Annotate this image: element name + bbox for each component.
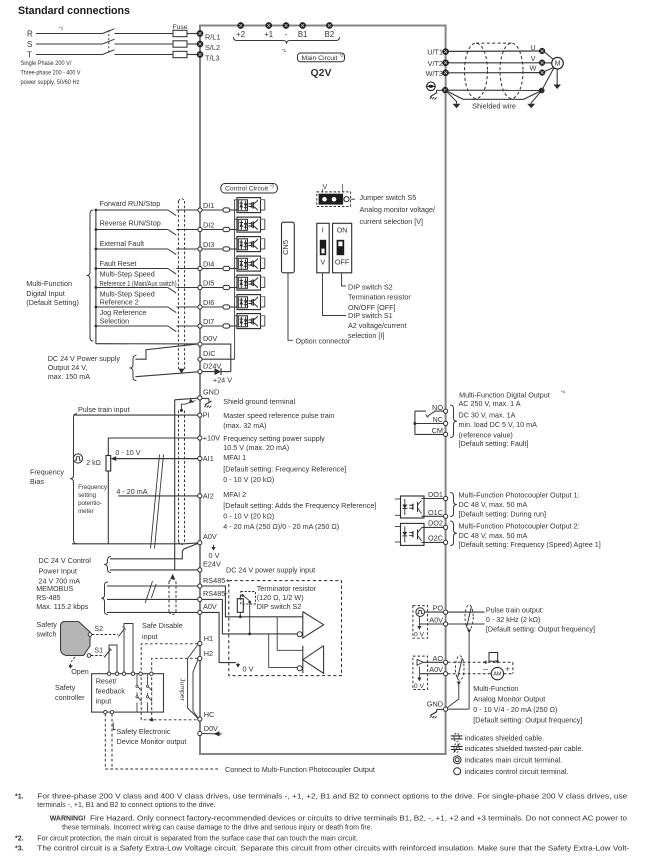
PO 0V arrow	[418, 616, 420, 626]
terminal A0V po	[444, 622, 448, 626]
svg-text:4 - 20 mA: 4 - 20 mA	[116, 487, 147, 496]
svg-text:[Default setting: Adds the Fre: [Default setting: Adds the Frequency Ref…	[223, 501, 376, 510]
rs485 driver U2	[303, 612, 324, 638]
photocoupler DO1 box	[401, 496, 425, 518]
optocoupler isolator for DI2	[237, 217, 261, 232]
wire resistor to optocoupler DI6	[230, 306, 237, 308]
svg-text:Frequency setting power supply: Frequency setting power supply	[223, 434, 325, 443]
terminal B2	[326, 22, 332, 28]
terminal S/L2	[197, 41, 203, 47]
svg-text:E24V: E24V	[203, 560, 221, 569]
svg-text:Three-phase 200 - 400 V: Three-phase 200 - 400 V	[21, 70, 82, 77]
relay output brace	[450, 405, 457, 438]
svg-text:Jumper switch S5: Jumper switch S5	[360, 193, 417, 202]
0 V arrow below A0V	[213, 545, 215, 548]
svg-text:DO2: DO2	[428, 519, 443, 528]
svg-text:U/T1: U/T1	[427, 48, 443, 57]
svg-text:DO1: DO1	[428, 490, 443, 499]
svg-text:*2.: *2.	[15, 836, 24, 843]
svg-text:*4: *4	[561, 390, 566, 395]
wire AI1 wiper arrow	[114, 458, 198, 460]
terminal R/L1	[197, 30, 203, 36]
terminal -	[283, 22, 289, 28]
svg-text:DC 24 V power supply input: DC 24 V power supply input	[226, 566, 315, 575]
opto right stub bottom DI6	[261, 306, 265, 308]
safety switch S3 body	[61, 622, 91, 656]
wire PO	[425, 611, 444, 613]
terminal A0V memobus	[198, 610, 202, 614]
wire resistor to optocoupler DI3	[230, 248, 237, 250]
opto right vertical DI6	[264, 297, 266, 307]
svg-text:[Default setting: Frequency (S: [Default setting: Frequency (Speed) Agre…	[459, 540, 601, 549]
svg-text:OFF: OFF	[335, 257, 350, 266]
svg-text:[Default setting: Fault]: [Default setting: Fault]	[459, 439, 529, 448]
optocoupler isolator for DI1	[237, 198, 261, 213]
terminal D24V	[198, 370, 202, 374]
reset feedback box	[92, 674, 164, 712]
rs485 driver bubble	[297, 632, 302, 637]
svg-text:(Default Setting): (Default Setting)	[26, 298, 79, 307]
wire AO	[423, 661, 443, 663]
svg-text:T: T	[27, 50, 32, 59]
legend control terminal icon	[454, 768, 461, 775]
svg-text:NC: NC	[432, 415, 443, 424]
relay CM wire	[415, 433, 444, 435]
svg-text:Multi-Function Photocoupler Ou: Multi-Function Photocoupler Output 2:	[459, 522, 580, 531]
wire rail to switch DI4	[96, 268, 168, 270]
wire DI7 to resistor	[202, 325, 223, 327]
svg-text:switch: switch	[37, 630, 57, 639]
svg-text:D24V: D24V	[203, 361, 221, 370]
optocoupler isolator for DI7	[237, 314, 261, 329]
svg-text:GND: GND	[427, 700, 443, 709]
opto right vertical DI2	[264, 219, 266, 229]
terminal DI2	[198, 227, 202, 231]
DO1 brace	[450, 493, 457, 517]
svg-text:these terminals. Incorrect wir: these terminals. Incorrect wiring can ca…	[62, 825, 373, 832]
wire A0V po	[420, 623, 444, 625]
terminal V/T2	[443, 60, 449, 66]
shield wire to motor node	[448, 89, 539, 91]
svg-text:AI2: AI2	[203, 492, 214, 501]
terminal +2	[238, 22, 244, 28]
svg-text:R: R	[27, 29, 33, 38]
shield ground symbol	[202, 398, 209, 401]
svg-text:Safety: Safety	[55, 683, 76, 692]
terminal RS485+	[198, 584, 202, 588]
analog 0V rail	[174, 400, 176, 570]
memobus shielded cable pair	[168, 582, 170, 613]
switch blade DI1	[168, 210, 176, 216]
terminal PO	[444, 610, 448, 614]
svg-text:O1C: O1C	[428, 508, 443, 517]
terminal PI	[198, 413, 202, 417]
frequency bias brace	[70, 414, 77, 544]
drive enclosure box	[200, 26, 446, 755]
Control Circuit label box	[221, 184, 278, 194]
motor M1	[552, 57, 564, 69]
svg-text:DI3: DI3	[203, 240, 214, 249]
svg-text:R/L1: R/L1	[205, 33, 220, 42]
svg-text:Fuse: Fuse	[172, 24, 187, 31]
svg-text:terminals -, +1, B1 and B2 to: terminals -, +1, B1 and B2 to connect op…	[37, 802, 215, 809]
svg-text:max. 150 mA: max. 150 mA	[48, 372, 91, 381]
svg-text:Pulse train input: Pulse train input	[78, 405, 130, 414]
H2 dashed line	[152, 658, 198, 720]
svg-text:HC: HC	[204, 710, 215, 719]
junction on DI rail DI7	[95, 325, 98, 328]
ground terminal symbol	[427, 82, 436, 91]
S1 loop wires	[109, 645, 117, 674]
svg-text:RS-485: RS-485	[36, 593, 60, 602]
Main Circuit label box	[298, 53, 345, 62]
svg-text:Power Input: Power Input	[39, 566, 77, 575]
svg-text:indicates control circuit term: indicates control circuit terminal.	[465, 767, 569, 776]
wire switch to terminal DI4	[176, 268, 200, 270]
terminal O1C	[444, 514, 448, 518]
terminal RS485-	[198, 597, 202, 601]
resistor on DI4 input	[223, 266, 230, 270]
terminal GND right	[444, 707, 448, 711]
ground terminal chassis symbol	[436, 90, 442, 93]
svg-text:Shield ground terminal: Shield ground terminal	[223, 397, 295, 406]
wire DO2	[422, 526, 444, 528]
svg-text:Bias: Bias	[30, 477, 44, 486]
terminal DO1	[444, 496, 448, 500]
svg-text:Single Phase 200 V/: Single Phase 200 V/	[21, 60, 72, 67]
wire A0V internal	[202, 612, 236, 662]
svg-text:0 - 10 V (20 kΩ): 0 - 10 V (20 kΩ)	[223, 512, 274, 521]
wire E24V	[110, 569, 198, 571]
wire rs485 plus tap	[277, 617, 303, 651]
svg-text:W: W	[530, 64, 537, 73]
svg-text:Safety: Safety	[37, 620, 58, 629]
svg-text:Multi-Function Photocoupler Ou: Multi-Function Photocoupler Output 1:	[459, 491, 580, 500]
svg-text:Fault Reset: Fault Reset	[100, 259, 137, 268]
wire A0V dashed external	[448, 673, 491, 675]
svg-text:O2C: O2C	[428, 534, 443, 543]
switch mechanical link	[108, 30, 110, 54]
shield wire node on edge	[442, 87, 448, 93]
terminal AI1	[198, 456, 202, 460]
shield ellipse right	[500, 43, 523, 98]
svg-text:min. load DC 5 V, 10 mA: min. load DC 5 V, 10 mA	[459, 420, 538, 429]
terminal A0V analog common	[198, 541, 202, 545]
svg-text:S1: S1	[94, 646, 103, 655]
EDM label leader	[113, 723, 115, 730]
svg-text:DIP switch S1: DIP switch S1	[348, 311, 393, 320]
svg-text:Reverse RUN/Stop: Reverse RUN/Stop	[100, 219, 161, 228]
wire rail to switch DI3	[96, 248, 168, 250]
svg-text:*1.: *1.	[15, 794, 24, 801]
svg-text:Standard connections: Standard connections	[18, 5, 130, 17]
opto right vertical DI4	[264, 258, 266, 268]
wire switch to terminal DI3	[176, 248, 200, 250]
terminal +1	[266, 22, 272, 28]
twisted pair marks analog	[151, 455, 160, 549]
input stub into opto DI4	[235, 257, 237, 259]
wire switch to terminal DI2	[176, 229, 200, 231]
relay NO wire	[415, 410, 426, 412]
switch blade S	[103, 39, 115, 44]
wire V	[449, 62, 539, 64]
svg-text:DIP switch S2: DIP switch S2	[348, 282, 393, 291]
wire DI2 to resistor	[202, 229, 223, 231]
svg-text:*3: *3	[270, 184, 275, 189]
motor frame ground stem	[556, 69, 558, 85]
legend main terminal icon	[453, 756, 461, 764]
opto right stub bottom DI4	[261, 268, 265, 270]
PO shield drain	[467, 630, 471, 634]
junction dot on EDM dashed	[150, 718, 153, 721]
wire T switch to fuse	[115, 54, 174, 56]
wire PI	[74, 414, 198, 416]
wire rail to switch DI2	[96, 229, 168, 231]
terminal DI6	[198, 305, 202, 309]
svg-text:DI6: DI6	[203, 298, 214, 307]
terminal T/L3	[197, 51, 203, 57]
motor shield node	[539, 88, 545, 94]
opto right stub top DI6	[261, 296, 265, 298]
svg-text:*3.: *3.	[15, 846, 24, 853]
terminal AO	[444, 660, 448, 664]
drain wire to analog shield	[181, 401, 195, 410]
svg-text:Shielded wire: Shielded wire	[472, 102, 516, 111]
opto right stub bottom DI5	[261, 287, 265, 289]
analog shield drain dot	[180, 409, 183, 412]
terminal D0V safety	[198, 731, 202, 735]
resistor on DI5 input	[223, 285, 230, 289]
svg-text:AM: AM	[493, 671, 502, 677]
svg-text:S2: S2	[94, 624, 103, 633]
svg-text:setting: setting	[78, 492, 96, 499]
svg-text:+1: +1	[264, 30, 273, 39]
input stub into opto DI3	[235, 238, 237, 240]
svg-text:indicates main circuit termina: indicates main circuit terminal.	[465, 755, 563, 764]
svg-text:0 - 10 V/4 - 20 mA (250 Ω): 0 - 10 V/4 - 20 mA (250 Ω)	[473, 705, 557, 714]
wire S to switch	[36, 43, 103, 45]
svg-text:Open: Open	[71, 667, 89, 676]
wire DI3 to resistor	[202, 248, 223, 250]
svg-text:4 - 20 mA (250 Ω)/0 - 20 mA (2: 4 - 20 mA (250 Ω)/0 - 20 mA (250 Ω)	[223, 522, 339, 531]
terminal E24V	[198, 568, 202, 572]
terminal CM	[444, 432, 448, 436]
wire rail to switch DI1	[96, 209, 168, 211]
svg-text:Digital Input: Digital Input	[26, 289, 65, 298]
wire resistor to optocoupler DI4	[230, 268, 237, 270]
svg-text:+10V: +10V	[203, 434, 220, 443]
wire A0V memobus	[107, 611, 198, 613]
svg-text:0 V: 0 V	[414, 683, 425, 690]
svg-text:Connect to Multi-Function Phot: Connect to Multi-Function Photocoupler O…	[225, 765, 375, 774]
svg-text:[Default setting: Frequency Re: [Default setting: Frequency Reference]	[223, 465, 346, 474]
switch blade T	[103, 50, 115, 55]
DO2 brace	[450, 521, 457, 546]
svg-text:controller: controller	[55, 693, 85, 702]
wire switch to terminal DI1	[176, 209, 200, 211]
wire supply to D24V	[135, 372, 198, 377]
svg-text:WARNING!: WARNING!	[50, 816, 86, 823]
wire RS485- internal	[202, 599, 297, 634]
feedback contacts	[136, 674, 138, 686]
PO twist symbol	[465, 605, 473, 629]
switch blade DI5	[168, 288, 176, 294]
svg-text:0 V: 0 V	[243, 665, 254, 674]
svg-text:2 kΩ: 2 kΩ	[86, 460, 101, 467]
optocoupler isolator for DI4	[237, 256, 261, 271]
motor terminal W	[539, 70, 545, 76]
svg-text:RS485-: RS485-	[203, 589, 228, 598]
S2 loop wires	[124, 624, 133, 675]
svg-text:Master speed reference pulse t: Master speed reference pulse train	[223, 411, 334, 420]
opto right stub top DI2	[261, 218, 265, 220]
svg-text:U: U	[530, 43, 535, 52]
svg-text:For three-phase 200 V class an: For three-phase 200 V class and 400 V cl…	[37, 794, 627, 801]
wire DI5 to resistor	[202, 287, 223, 289]
wire AO dashed external	[448, 661, 513, 663]
jumper wire H2-HC	[193, 660, 199, 719]
fuse T	[173, 51, 187, 57]
S2 contact dot on switch	[88, 633, 92, 637]
svg-text:V: V	[323, 184, 328, 191]
svg-text:0 - 32 kHz (2 kΩ): 0 - 32 kHz (2 kΩ)	[486, 615, 541, 624]
AO twist symbol	[455, 656, 464, 681]
svg-text:PO: PO	[432, 604, 443, 613]
terminator resistor	[237, 599, 243, 613]
svg-text:M: M	[555, 61, 561, 68]
input stub into opto DI5	[235, 276, 237, 278]
DO1 input stubs	[395, 498, 401, 500]
svg-text:[Default setting: During run]: [Default setting: During run]	[459, 509, 547, 518]
input stub into opto DI6	[235, 296, 237, 298]
svg-text:Output 24 V,: Output 24 V,	[48, 363, 88, 372]
input stub into opto DI1	[235, 199, 237, 201]
rs485 receiver bubble	[297, 666, 302, 671]
svg-text:Q2V: Q2V	[310, 67, 331, 79]
frequency bias common rail	[72, 543, 185, 545]
resistor on DI7 input	[223, 324, 230, 328]
relay blade	[427, 412, 435, 418]
wire S switch to fuse	[115, 43, 174, 45]
reset box top terminals	[107, 672, 110, 675]
svg-text:A0V: A0V	[203, 602, 217, 611]
DO2 input stubs	[395, 526, 401, 528]
junction on DI rail DI4	[95, 267, 98, 270]
wire resistor to optocoupler DI2	[230, 229, 237, 231]
fuse R	[173, 30, 187, 36]
svg-text:D0V: D0V	[203, 334, 217, 343]
S1 blade	[104, 650, 111, 658]
DIP S1 leader	[323, 273, 347, 316]
opto right stub top DI1	[261, 199, 265, 201]
RS485 circuit dashed box	[229, 581, 342, 676]
wire switch to terminal DI5	[176, 287, 200, 289]
wire resistor to optocoupler DI7	[230, 325, 237, 327]
terminal GND control	[198, 396, 202, 400]
svg-text:Jumper: Jumper	[179, 678, 186, 701]
terminal DI3	[198, 247, 202, 251]
switch blade DI4	[168, 269, 176, 275]
svg-text:CN5: CN5	[281, 240, 290, 255]
EDM dashed wires	[104, 714, 106, 769]
svg-text:input: input	[142, 632, 158, 641]
svg-text:DI5: DI5	[203, 279, 214, 288]
wire W to motor	[545, 68, 554, 72]
wire rail to switch DI5	[96, 287, 168, 289]
terminal +10V	[198, 436, 202, 440]
svg-text:+2: +2	[236, 30, 245, 39]
wire rail to switch DI7	[96, 325, 168, 327]
switch blade DI2	[168, 230, 176, 236]
wire A0V ao	[420, 673, 444, 675]
potentiometer R1	[106, 456, 111, 472]
reset box bottom terminals	[104, 710, 107, 713]
svg-text:ON: ON	[337, 226, 348, 235]
junction on DI rail DI6	[95, 306, 98, 309]
PO dashed box	[413, 606, 428, 639]
relay left bus	[414, 411, 416, 434]
wire T to switch	[36, 54, 103, 56]
resistor on DI1 input	[223, 208, 230, 212]
svg-text:Selection: Selection	[100, 316, 130, 325]
terminal D0V	[198, 342, 202, 346]
svg-text:Safety Electronic: Safety Electronic	[117, 727, 171, 736]
svg-text:W/T3: W/T3	[426, 69, 443, 78]
wire DO1	[422, 498, 444, 500]
wire V to motor	[545, 62, 552, 64]
svg-text:Multi-Function: Multi-Function	[26, 279, 72, 288]
wire D0V arrow	[202, 733, 222, 736]
GND chassis symbol right	[437, 709, 444, 712]
svg-text:-: -	[285, 30, 288, 39]
svg-text:10.5 V (max. 20 mA): 10.5 V (max. 20 mA)	[223, 443, 289, 452]
svg-text:Frequency: Frequency	[30, 467, 64, 476]
opto right stub top DI5	[261, 276, 265, 278]
DIP switch S1	[317, 223, 329, 272]
svg-text:Analog monitor voltage/: Analog monitor voltage/	[360, 205, 436, 214]
terminal DI7	[198, 324, 202, 328]
MEMOBUS brace	[101, 582, 108, 615]
wire T fuse to terminal	[187, 54, 200, 56]
svg-text:power supply, 50/60 Hz: power supply, 50/60 Hz	[21, 79, 80, 86]
terminal DO2	[444, 525, 448, 529]
terminal NC	[444, 421, 448, 425]
svg-text:0 V: 0 V	[209, 551, 220, 560]
svg-text:D0V: D0V	[204, 724, 218, 733]
terminal H2	[198, 656, 202, 660]
wire R to switch	[36, 33, 103, 35]
wire rail to switch DI6	[96, 306, 168, 308]
motor terminal V	[539, 60, 545, 66]
svg-text:T/L3: T/L3	[205, 54, 220, 63]
wire RS485+	[107, 585, 198, 587]
motor terminal U	[539, 48, 545, 54]
svg-text:Termination resistor: Termination resistor	[348, 293, 411, 302]
svg-text:PI: PI	[203, 411, 210, 420]
shield ellipse left	[465, 43, 488, 98]
svg-text:AO: AO	[432, 654, 443, 663]
input stub into opto DI7	[235, 315, 237, 317]
junction on DI rail DI3	[95, 248, 98, 251]
wire R fuse to terminal	[187, 33, 200, 35]
Multi-Function Digital Input brace	[87, 210, 94, 341]
svg-text:AI1: AI1	[203, 454, 214, 463]
legend shielded cable icon	[451, 735, 463, 737]
AO dashed box	[413, 656, 428, 689]
terminal A0V ao	[444, 672, 448, 676]
svg-text:V/T2: V/T2	[428, 59, 443, 68]
opto right vertical DI5	[264, 277, 266, 287]
